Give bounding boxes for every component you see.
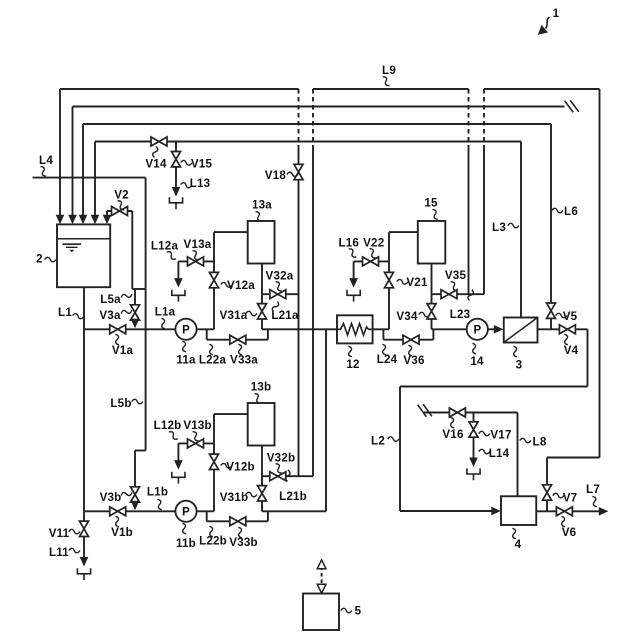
tank 13a (248, 221, 275, 264)
svg-text:L3: L3 (492, 221, 506, 234)
wire bus B left drop (72, 107, 74, 217)
wire V13b horizontal (178, 442, 214, 444)
svg-text:13a: 13a (252, 199, 272, 212)
svg-text:L21b: L21b (279, 490, 307, 503)
svg-text:L1: L1 (58, 306, 72, 319)
svg-text:V13a: V13a (184, 238, 212, 251)
svg-text:L1b: L1b (147, 486, 168, 499)
wire L9 left drop into tank 2 (59, 89, 61, 216)
drain symbol L12a (172, 290, 185, 302)
wire bypass L22b horizontal (207, 520, 268, 522)
wire below V11 (83, 536, 85, 558)
wire bus D left drop (94, 142, 96, 217)
riser x=468.5 solid part (468, 146, 470, 294)
wire V2 branch drop into tank (106, 211, 108, 216)
wire L1b from L1 to V1b (84, 510, 110, 512)
wire right side horizontal to V7 (547, 457, 600, 459)
wire L5a junction horizontal (132, 288, 145, 290)
wire below V3a (134, 320, 136, 321)
svg-text:V35: V35 (445, 269, 467, 282)
drain symbol L11 (77, 568, 90, 580)
svg-text:V31b: V31b (220, 491, 249, 504)
svg-text:L11: L11 (49, 546, 69, 559)
wire V12b vertical lower (213, 469, 215, 511)
svg-text:13b: 13b (251, 381, 272, 394)
wire riser joining L1b to L1a (325, 329, 327, 511)
arrow into unit 3 (494, 325, 504, 334)
svg-text:P: P (182, 324, 190, 336)
arrow into unit 4 (491, 507, 501, 516)
svg-text:P: P (182, 506, 190, 518)
svg-text:2: 2 (36, 253, 43, 266)
valve V12a (210, 272, 219, 287)
arrow from V3b onto line L1b (131, 501, 140, 511)
wire below V15 (175, 167, 177, 188)
wire V12b vertical upper (213, 414, 215, 454)
svg-text:V33b: V33b (229, 536, 258, 549)
unit 3 (filter) (504, 318, 538, 343)
wire L1a to pump 11a (126, 328, 176, 330)
wire below V3b (134, 502, 136, 503)
svg-text:V1a: V1a (112, 344, 134, 357)
wire V13a horizontal (178, 260, 214, 262)
wire from unit 3 to V4 (538, 328, 560, 330)
arrow from V3a onto line L1a (131, 319, 140, 329)
wire V7 drop lower (546, 500, 548, 511)
tank 2 inner line (57, 238, 110, 240)
wire L4 drop to L5 junction (145, 178, 147, 289)
wire corner down to L2 top (587, 329, 589, 386)
unit 3 diagonal (504, 318, 538, 343)
wire L9 right side drop (599, 89, 601, 458)
valve V13b (188, 439, 204, 448)
wire bypass L22a up leg (267, 329, 269, 339)
wire bypass L24 down leg (382, 329, 384, 339)
svg-text:L6: L6 (564, 205, 578, 218)
wire L2 left vertical (399, 387, 401, 512)
wire L9 top bus segment 1 (60, 88, 299, 90)
wire bypass L24 horizontal (383, 339, 433, 341)
wire L6 drop lower (550, 318, 552, 329)
svg-text:V36: V36 (403, 354, 425, 367)
valve V5 (547, 303, 556, 318)
svg-text:L8: L8 (533, 436, 547, 449)
valve V13a (188, 257, 204, 266)
dashed riser x=313 (312, 89, 314, 146)
arrow into tank 2 from bus C (79, 215, 88, 225)
arrow to drain L12a (174, 278, 183, 288)
riser x=298.5 solid part lower (298, 180, 300, 477)
heat exchanger 12 (337, 315, 373, 343)
break symbol on V16 line (418, 405, 427, 417)
valve V33b (230, 517, 246, 526)
wire pump 14 outlet (488, 328, 495, 330)
wire L1 tank outlet vertical (83, 287, 85, 511)
valve V17 (469, 422, 478, 437)
arrow to drain L14 (469, 458, 478, 468)
wire L5b lower vertical (134, 451, 136, 488)
wire L1b pump outlet (197, 510, 214, 512)
wire V31a vertical upper (261, 294, 263, 304)
pump 11a (175, 319, 196, 340)
wire L12a drain drop (177, 261, 179, 279)
wire bypass L22b down leg (206, 511, 208, 521)
wire L1a from L1 to V1a (84, 328, 110, 330)
arrow into tank 2 from V2 (103, 215, 112, 225)
svg-text:L9: L9 (382, 64, 396, 77)
svg-text:L12a: L12a (151, 240, 179, 253)
wire 15 left connection (389, 231, 418, 233)
wire bypass L22b up leg (267, 511, 269, 521)
wire bus D (to L3) (95, 141, 521, 143)
riser x=313 solid part (312, 146, 314, 476)
wire V17 drop lower (473, 437, 475, 458)
wire 13b left connection (214, 413, 248, 415)
valve V6 (556, 507, 572, 516)
dashed riser x=298.5 (V18 line) (298, 89, 300, 146)
arrow output L7 (599, 507, 609, 516)
svg-text:4: 4 (515, 538, 522, 551)
arrow to drain L11 (80, 557, 89, 567)
pump 14 (467, 319, 488, 340)
svg-text:L4: L4 (39, 154, 53, 167)
wire L9 top bus segment 3 (484, 88, 600, 90)
svg-text:L24: L24 (377, 353, 398, 366)
svg-text:L1a: L1a (155, 306, 176, 319)
arrow to drain L16 (349, 278, 358, 288)
wire V32a horizontal (L21a) (262, 293, 299, 295)
svg-text:V2: V2 (114, 189, 129, 202)
wire V31b vertical upper (261, 476, 263, 486)
heat exchanger 12 zigzag (337, 324, 373, 335)
svg-text:L21a: L21a (271, 309, 299, 322)
valve V18 (294, 164, 303, 179)
wire 13a left connection (214, 231, 248, 233)
svg-text:V3b: V3b (100, 491, 122, 504)
valve V16 (449, 408, 465, 417)
wire V2 branch horizontal (107, 210, 132, 212)
wire L4 feed line (33, 177, 146, 179)
svg-text:V22: V22 (363, 237, 384, 250)
svg-text:5: 5 (355, 605, 362, 618)
wire L1a pump outlet (197, 328, 214, 330)
svg-text:V14: V14 (145, 158, 167, 171)
svg-text:V6: V6 (562, 526, 577, 539)
wire L12b drain drop (177, 443, 179, 461)
dashed riser x=484 (483, 89, 485, 146)
wire V31b vertical lower (261, 501, 263, 512)
wire L2 bottom horizontal (400, 510, 495, 512)
drain symbol L16 (347, 290, 360, 302)
svg-text:L22a: L22a (199, 354, 227, 367)
valve V33a (230, 335, 246, 344)
svg-text:L13: L13 (190, 177, 211, 190)
tank 13b (248, 403, 275, 446)
wire L5b jog (135, 450, 146, 452)
valve V32b (270, 472, 286, 481)
drain symbol L12b (172, 472, 185, 484)
svg-text:V13b: V13b (183, 419, 212, 432)
svg-text:V32b: V32b (267, 452, 296, 465)
arrow into tank 2 from L9 (56, 215, 65, 225)
wire V7 drop upper (546, 458, 548, 486)
wire L6 drop upper (550, 124, 552, 303)
valve V35 (441, 290, 457, 299)
valve V4 (559, 325, 575, 334)
wire V15 branch down from bus D (175, 142, 177, 153)
valve V3a (131, 305, 140, 320)
arrow to drain L12b (174, 460, 183, 470)
unit 4 (501, 496, 536, 525)
wire L1 below branch point (83, 511, 85, 521)
tank 2 liquid level symbol (63, 243, 82, 245)
svg-text:11a: 11a (176, 354, 196, 367)
wire L2 top horizontal (400, 386, 588, 388)
svg-text:L5a: L5a (100, 293, 121, 306)
svg-text:L7: L7 (586, 483, 600, 496)
drain symbol L14 (467, 468, 480, 480)
valve V1b (110, 507, 126, 516)
svg-text:15: 15 (424, 197, 438, 210)
wire main line to pump 14 (432, 328, 467, 330)
svg-text:V3a: V3a (99, 309, 121, 322)
wire L1b to pump 11b (126, 510, 176, 512)
wire L5b vertical (145, 289, 147, 451)
svg-text:L2: L2 (371, 435, 385, 448)
valve V22 (363, 257, 379, 266)
valve V11 (80, 521, 89, 536)
wire V31a vertical lower (261, 319, 263, 330)
svg-text:V11: V11 (49, 527, 70, 540)
riser x=484 solid part (483, 146, 485, 294)
svg-text:V33a: V33a (230, 354, 258, 367)
dashed connection arrow to unit 5 (321, 567, 323, 588)
wire 15 bottom drop (431, 264, 433, 295)
wire V22 horizontal (L16) (354, 260, 389, 262)
svg-text:1: 1 (553, 7, 560, 20)
arrow into tank 2 from bus D (91, 215, 100, 225)
wire V12a vertical upper (213, 232, 215, 273)
wire L8 drop to unit 4 (517, 413, 519, 497)
svg-text:V4: V4 (564, 344, 579, 357)
valve V14 on bus D (151, 137, 167, 146)
svg-text:V18: V18 (265, 169, 287, 182)
svg-text:L12b: L12b (154, 419, 182, 432)
valve V34 (427, 304, 436, 319)
wire L1b from V31b junction to riser (262, 510, 326, 512)
wire V21 vertical lower (388, 288, 390, 330)
wire V2 branch riser (131, 211, 133, 289)
valve V7 (543, 485, 552, 500)
break symbol on bus B (565, 101, 574, 113)
svg-text:V17: V17 (490, 429, 511, 442)
wire V35 horizontal (L23) (432, 293, 485, 295)
dashed riser x=468.5 (468, 89, 470, 146)
svg-text:V21: V21 (406, 276, 428, 289)
arrow into tank 2 from bus B (68, 215, 77, 225)
svg-text:L22b: L22b (199, 535, 227, 548)
wire L1a from V31a junction to HX 12 (262, 328, 337, 330)
wire L9 top bus segment 2 (313, 88, 469, 90)
figure number 1 arrow (546, 17, 550, 29)
svg-text:V7: V7 (563, 492, 578, 505)
wire V3a drop upper (134, 289, 136, 305)
valve V31b (258, 486, 267, 501)
valve V32a (270, 290, 286, 299)
valve V2 (112, 207, 128, 216)
svg-text:L16: L16 (338, 237, 359, 250)
svg-text:14: 14 (470, 355, 484, 368)
wire bus C left drop (82, 124, 84, 216)
wire bypass L24 up leg (432, 329, 434, 339)
wire V34 vertical lower (431, 319, 433, 330)
valve V31a (258, 304, 267, 319)
svg-text:L14: L14 (489, 447, 510, 460)
wire V21 vertical upper (388, 232, 390, 273)
valve V3b (131, 487, 140, 502)
wire 13a bottom drop (261, 264, 263, 295)
wire L16 drain drop (353, 261, 355, 279)
unit 5 (303, 594, 339, 631)
wire bypass L22a down leg (206, 329, 208, 339)
svg-text:12: 12 (346, 358, 359, 371)
wire 13b bottom drop (261, 446, 263, 477)
wire V34 vertical upper (431, 294, 433, 304)
wire unit 4 outlet (536, 510, 556, 512)
wire V32b horizontal (L21b) (262, 475, 313, 477)
valve V36 (403, 335, 419, 344)
svg-text:L5b: L5b (110, 397, 131, 410)
svg-text:V32a: V32a (266, 270, 294, 283)
wire bus C (to L6) (83, 123, 551, 125)
svg-text:P: P (473, 324, 481, 336)
svg-text:V31a: V31a (220, 309, 248, 322)
wire bus B (73, 106, 565, 108)
svg-text:L23: L23 (450, 308, 471, 321)
wire V4 to corner (575, 328, 587, 330)
tank 2 (57, 224, 110, 287)
drain symbol L13 (169, 197, 182, 209)
valve V21 (385, 272, 394, 287)
svg-text:V34: V34 (396, 310, 418, 323)
wire V12a vertical lower (213, 288, 215, 330)
wire L3 drop into unit 3 (520, 142, 522, 318)
svg-text:V16: V16 (442, 428, 464, 441)
arrow to drain L13 (172, 187, 181, 197)
wire V17 drop upper (473, 413, 475, 423)
valve V1a (110, 325, 126, 334)
valve V15 (172, 152, 181, 167)
riser x=298.5 solid part upper (298, 146, 300, 165)
wire after V6 (572, 510, 600, 512)
wire V16 horizontal (424, 412, 518, 414)
svg-text:V15: V15 (191, 158, 213, 171)
svg-text:3: 3 (516, 359, 523, 372)
svg-text:11b: 11b (176, 537, 196, 550)
valve V12b (210, 454, 219, 469)
tank 15 (418, 221, 446, 264)
wire L1 main after HX 12 (373, 328, 389, 330)
svg-text:V1b: V1b (111, 526, 133, 539)
pump 11b (175, 501, 196, 522)
wire bypass L22a horizontal (207, 339, 268, 341)
